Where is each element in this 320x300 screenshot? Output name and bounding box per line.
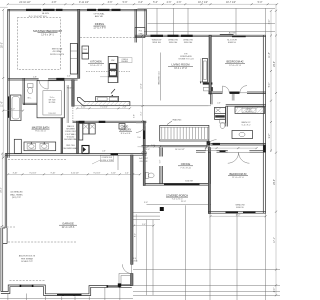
door bedroom3 1 bbox=[228, 152, 239, 163]
right exterior wall bbox=[263, 35, 265, 213]
door master bedroom to hall bbox=[39, 80, 48, 89]
garage east wall bbox=[131, 155, 133, 264]
svg-text:3'-10": 3'-10" bbox=[13, 172, 18, 174]
svg-text:MW ABV: MW ABV bbox=[121, 60, 129, 63]
svg-text:8'-6 x 6'-6: 8'-6 x 6'-6 bbox=[121, 133, 131, 135]
bath closet divider wall bbox=[61, 118, 63, 154]
master wic shelves bbox=[66, 85, 68, 123]
svg-text:F.G.: F.G. bbox=[139, 31, 143, 33]
svg-text:5'-6": 5'-6" bbox=[160, 159, 162, 163]
driveway apron line bbox=[0, 298, 133, 300]
wc toilet bbox=[28, 84, 34, 88]
svg-text:12'-0 x 11'-8: 12'-0 x 11'-8 bbox=[229, 65, 242, 67]
svg-text:11'-6 x 11'-0: 11'-6 x 11'-0 bbox=[232, 177, 244, 179]
svg-text:SEE NOTE: SEE NOTE bbox=[52, 49, 63, 51]
svg-text:PER SHEAR: PER SHEAR bbox=[21, 257, 34, 260]
kitchen stack side line bbox=[118, 56, 120, 83]
garage west wall bbox=[5, 154, 7, 229]
stair newel post bbox=[207, 141, 211, 145]
svg-text:3030 SH: 3030 SH bbox=[185, 181, 193, 183]
bath linen cabinet bbox=[14, 139, 21, 153]
svg-text:SL DOOR: SL DOOR bbox=[227, 40, 237, 42]
driveway horizontal 4 bbox=[133, 294, 280, 296]
door bedroom3 2 bbox=[239, 152, 250, 163]
svg-text:2'-8": 2'-8" bbox=[33, 76, 37, 78]
living south wall dim bbox=[153, 145, 155, 147]
kitchen dashed line bbox=[86, 70, 130, 72]
svg-text:12'-0": 12'-0" bbox=[236, 214, 241, 216]
garage stoop bbox=[119, 274, 131, 285]
fireplace chase corner bbox=[135, 28, 145, 38]
mud room north wall bbox=[73, 121, 147, 123]
svg-text:WINDOW: WINDOW bbox=[168, 40, 179, 42]
fireplace base box bbox=[204, 87, 213, 91]
svg-text:24'-6": 24'-6" bbox=[274, 179, 276, 185]
svg-text:5'-0": 5'-0" bbox=[146, 149, 150, 151]
svg-text:KITCHEN: KITCHEN bbox=[90, 60, 102, 64]
svg-text:OPTIONAL: OPTIONAL bbox=[93, 13, 105, 16]
kitchen note mark bbox=[111, 89, 115, 94]
living east wall bbox=[209, 35, 211, 94]
svg-text:W.C.: W.C. bbox=[28, 98, 32, 100]
svg-text:ANCHOR BOLTS: ANCHOR BOLTS bbox=[19, 255, 36, 258]
svg-text:2'-6": 2'-6" bbox=[217, 103, 221, 105]
porch post black bbox=[160, 207, 164, 211]
svg-text:3050 SH: 3050 SH bbox=[184, 42, 193, 44]
svg-text:NOTES: NOTES bbox=[49, 102, 56, 104]
covered patio roof lines bbox=[138, 7, 276, 9]
door kitchen-mud 1 bbox=[79, 121, 85, 123]
svg-text:BEDROOM #3: BEDROOM #3 bbox=[229, 172, 247, 176]
walkway dim line bbox=[134, 225, 154, 227]
svg-text:RAILING: RAILING bbox=[173, 118, 182, 121]
svg-text:5'-10 1/2: 5'-10 1/2 bbox=[48, 113, 55, 115]
svg-text:M.W.I.C.: M.W.I.C. bbox=[67, 88, 75, 90]
svg-text:ACCESS: ACCESS bbox=[246, 110, 254, 113]
apron joints bbox=[8, 287, 120, 300]
south wall bath/mud/garage north wall bbox=[5, 154, 146, 156]
svg-text:12'-11 x 9'-8: 12'-11 x 9'-8 bbox=[93, 28, 106, 30]
living west dim line bbox=[142, 35, 144, 121]
svg-text:GARAGE: GARAGE bbox=[62, 221, 74, 225]
porch grid joint bbox=[185, 205, 187, 300]
svg-text:5'-8": 5'-8" bbox=[133, 114, 135, 118]
driveway horizontal 1 bbox=[133, 269, 280, 271]
kitchen cabinet below ref bbox=[82, 54, 89, 60]
master bedroom tray ceiling dashed rect bbox=[17, 18, 60, 70]
right margin dimension lines bbox=[270, 11, 272, 152]
patio post 4 bbox=[235, 8, 237, 35]
svg-text:2'-4": 2'-4" bbox=[125, 172, 129, 174]
svg-text:LIVING ROOM: LIVING ROOM bbox=[172, 63, 191, 67]
svg-text:2'-8": 2'-8" bbox=[123, 106, 127, 108]
office window bbox=[164, 183, 200, 185]
fireplace bbox=[202, 59, 207, 83]
linen closet hatched bbox=[235, 107, 265, 114]
garage door post markers bbox=[62, 294, 64, 296]
garage front wall left bbox=[1, 285, 132, 296]
svg-text:SHOWER PAN: SHOWER PAN bbox=[64, 138, 77, 141]
attic access label bbox=[242, 108, 256, 112]
north wall of living room / bedroom2 under patio bbox=[135, 35, 266, 37]
window living 3 bbox=[181, 35, 193, 37]
fireplace hearth dark bar bbox=[203, 82, 213, 84]
svg-text:VAULTED CLG: VAULTED CLG bbox=[158, 71, 161, 85]
window master bedroom 1 bbox=[26, 9, 41, 11]
garage door dark bbox=[57, 294, 82, 296]
svg-text:OHA: OHA bbox=[138, 33, 143, 36]
svg-text:2'-4": 2'-4" bbox=[67, 76, 71, 78]
svg-text:(W1) TYP: (W1) TYP bbox=[12, 197, 22, 199]
bath2 vanity bbox=[232, 131, 253, 139]
wic tall cabinet dark bbox=[72, 80, 75, 107]
svg-text:BATH #2: BATH #2 bbox=[242, 121, 251, 124]
master bedroom east wall bbox=[78, 9, 80, 78]
living south wall bbox=[142, 145, 211, 147]
garage wall notch bbox=[3, 228, 7, 244]
svg-text:7'-9 x 9'-11: 7'-9 x 9'-11 bbox=[180, 167, 191, 169]
master bath tub bbox=[11, 95, 22, 121]
master bedroom south wall bbox=[8, 78, 39, 80]
washer dryer bbox=[83, 124, 89, 135]
left margin dimension line bbox=[2, 10, 4, 158]
mud utility box bbox=[82, 146, 89, 154]
door mud-garage dark bbox=[111, 153, 118, 155]
porch front edge bbox=[147, 204, 212, 206]
wc toilet 2 bbox=[146, 172, 149, 178]
svg-text:SHOWER HEAD: SHOWER HEAD bbox=[63, 147, 78, 150]
svg-text:7'-5 1/2": 7'-5 1/2" bbox=[100, 106, 108, 108]
office west wall hatched bbox=[160, 148, 163, 157]
utility closet boxes bbox=[215, 107, 226, 119]
svg-text:6030 SL: 6030 SL bbox=[236, 207, 245, 209]
garage west wall lower bbox=[1, 228, 3, 292]
kitchen refrigerator bbox=[82, 46, 89, 53]
door closet dark segment bbox=[56, 78, 64, 80]
garage window right bbox=[107, 285, 119, 287]
svg-text:DINING: DINING bbox=[95, 22, 104, 26]
door bedroom2 2 bbox=[240, 86, 247, 93]
svg-text:3'-0": 3'-0" bbox=[269, 20, 271, 25]
patio right edge bbox=[265, 8, 267, 35]
bath vanity bbox=[24, 142, 56, 151]
office east wall bbox=[208, 148, 210, 184]
garage dashed ceiling line 1 bbox=[8, 158, 66, 160]
bedroom2 wall stub dark bbox=[230, 92, 240, 94]
svg-text:11'-6": 11'-6" bbox=[1, 101, 3, 107]
stair railing bbox=[160, 125, 209, 141]
svg-text:29'-0": 29'-0" bbox=[1, 42, 3, 48]
svg-text:11'-8": 11'-8" bbox=[269, 52, 271, 58]
svg-text:2'-6": 2'-6" bbox=[167, 1, 172, 4]
svg-text:ABV HD: ABV HD bbox=[95, 15, 104, 18]
svg-text:4'-1": 4'-1" bbox=[141, 111, 143, 115]
bedroom3 north wall bbox=[196, 151, 206, 153]
svg-text:3050 SH: 3050 SH bbox=[152, 42, 161, 44]
mud east wall bbox=[143, 121, 145, 185]
door in mud east wall bbox=[143, 131, 145, 140]
svg-text:5'-0": 5'-0" bbox=[258, 1, 263, 4]
bath dim line bbox=[3, 110, 23, 112]
svg-text:ON PIER: ON PIER bbox=[140, 161, 148, 163]
svg-text:5'-0": 5'-0" bbox=[269, 83, 271, 88]
vanity sink 1 bbox=[27, 144, 36, 150]
vanity sink 2 bbox=[40, 144, 49, 150]
svg-text:5'-9": 5'-9" bbox=[123, 1, 128, 4]
bath2 door dark bar bbox=[213, 143, 221, 145]
svg-text:21'-0": 21'-0" bbox=[181, 201, 187, 203]
svg-text:ALIGN: ALIGN bbox=[229, 32, 236, 35]
svg-text:4x6 BRACED: 4x6 BRACED bbox=[10, 191, 23, 194]
garage window left bbox=[20, 285, 32, 287]
svg-text:22'-4 x 23'-6: 22'-4 x 23'-6 bbox=[62, 227, 75, 229]
svg-text:9'-10": 9'-10" bbox=[51, 172, 56, 174]
driveway vertical 2 bbox=[209, 214, 211, 300]
bath2 south wall bbox=[211, 144, 266, 146]
svg-text:BEDROOM #2: BEDROOM #2 bbox=[226, 60, 244, 64]
door hall closet bbox=[206, 140, 217, 151]
bath2 toilet bbox=[220, 119, 225, 123]
master bedroom wardrobe cabinet bbox=[70, 44, 77, 75]
door bedroom3 dark bar bbox=[220, 150, 226, 152]
svg-text:17'-0": 17'-0" bbox=[141, 83, 143, 89]
svg-text:10'-7 1/2": 10'-7 1/2" bbox=[198, 1, 208, 4]
top dimension line bbox=[8, 3, 277, 5]
patio post 3 bbox=[187, 8, 189, 35]
hall north wall bbox=[226, 104, 266, 106]
svg-text:9'-11 1/2": 9'-11 1/2" bbox=[79, 1, 89, 4]
garage dashed stub bbox=[0, 226, 15, 228]
svg-text:5'-0": 5'-0" bbox=[144, 202, 148, 204]
svg-text:8'-0": 8'-0" bbox=[134, 233, 136, 237]
svg-text:R.O. 11'-0 5/8" V.I.F.: R.O. 11'-0 5/8" V.I.F. bbox=[29, 16, 48, 18]
svg-text:STONE TO CLG: STONE TO CLG bbox=[178, 59, 194, 61]
kitchen oven note box bbox=[118, 58, 133, 63]
svg-text:5'-10": 5'-10" bbox=[111, 172, 116, 174]
svg-text:13'-6 x 14'-1: 13'-6 x 14'-1 bbox=[41, 35, 54, 37]
sliding door bedroom2 bbox=[220, 34, 234, 35]
svg-text:MASTER BEDROOM: MASTER BEDROOM bbox=[33, 29, 62, 33]
window master bedroom 3 bbox=[56, 9, 63, 11]
svg-text:OFFICE: OFFICE bbox=[181, 162, 191, 166]
svg-text:5'-0": 5'-0" bbox=[142, 224, 146, 226]
bedroom2 south wall bbox=[208, 92, 222, 94]
driveway horizontal 2 bbox=[133, 284, 280, 286]
svg-text:5'-0 x 9'-2: 5'-0 x 9'-2 bbox=[242, 125, 252, 127]
left exterior wall bbox=[8, 9, 10, 157]
svg-text:ALIGN: ALIGN bbox=[42, 12, 49, 15]
svg-text:WINDOW: WINDOW bbox=[152, 40, 163, 42]
hall dim line 2 bbox=[206, 147, 257, 149]
wc bottom wall bbox=[23, 103, 37, 105]
svg-text:WALL B: WALL B bbox=[67, 125, 75, 128]
kitchen oven stack bbox=[108, 56, 117, 76]
svg-text:24'-10 1/2": 24'-10 1/2" bbox=[19, 1, 31, 4]
fireplace dim line bbox=[200, 59, 202, 84]
pantry cabinet mud bbox=[79, 124, 83, 141]
garage side dim bbox=[135, 214, 137, 262]
svg-text:FIREPLACE: FIREPLACE bbox=[180, 55, 192, 58]
hall dim line bbox=[138, 146, 160, 148]
mud sink box bbox=[119, 124, 125, 130]
svg-text:16'-4 x 17'-8: 16'-4 x 17'-8 bbox=[174, 68, 187, 70]
garage left margin dim line bbox=[1, 154, 3, 229]
window left wall master bath bbox=[8, 96, 10, 117]
svg-text:9'-0 1/2": 9'-0 1/2" bbox=[30, 172, 37, 174]
dining east wall bbox=[135, 9, 137, 42]
porch steps bbox=[132, 212, 160, 214]
svg-text:WALL PANEL: WALL PANEL bbox=[10, 193, 24, 196]
svg-text:4X FRME: 4X FRME bbox=[52, 51, 62, 53]
kitchen leader bbox=[100, 76, 108, 78]
window master bedroom 2 bbox=[43, 9, 55, 11]
svg-text:3050 SH: 3050 SH bbox=[169, 42, 178, 44]
svg-text:24'-6": 24'-6" bbox=[274, 61, 276, 67]
window dining 1 bbox=[87, 9, 96, 11]
svg-text:6068 SL: 6068 SL bbox=[228, 42, 237, 44]
svg-text:5'-0": 5'-0" bbox=[153, 1, 158, 4]
svg-text:4'-0": 4'-0" bbox=[138, 1, 143, 4]
kitchen counter bbox=[78, 97, 130, 105]
svg-text:14'-10 1/2": 14'-10 1/2" bbox=[175, 149, 185, 151]
window dining 2 bbox=[98, 9, 110, 11]
garage dim line bbox=[8, 173, 140, 175]
bedroom3 south dim bbox=[211, 215, 266, 217]
bedroom2 closet hatch bbox=[232, 94, 235, 101]
living/hall boundary line bbox=[73, 105, 209, 107]
water closet wall vertical bbox=[23, 78, 25, 104]
hall post symbol bbox=[142, 151, 147, 156]
window living 2 bbox=[168, 35, 179, 37]
mud room door arc right bbox=[136, 123, 146, 132]
kitchen sink counter bbox=[96, 96, 119, 101]
hall wall segments bbox=[211, 94, 213, 104]
svg-text:2'-6": 2'-6" bbox=[102, 151, 106, 153]
top exterior wall bbox=[8, 9, 147, 11]
svg-text:3'-6": 3'-6" bbox=[108, 1, 113, 4]
garage interior line bbox=[117, 155, 119, 170]
garage dashed line 2 bbox=[8, 241, 76, 243]
svg-text:10'-7 1/2": 10'-7 1/2" bbox=[226, 1, 236, 4]
garage service door arc bbox=[122, 264, 131, 273]
window dining 3 bbox=[112, 9, 121, 11]
svg-text:2'-6": 2'-6" bbox=[177, 1, 182, 4]
window bedroom3 1 bbox=[226, 211, 239, 213]
svg-text:9'-0 1/2": 9'-0 1/2" bbox=[94, 172, 101, 174]
bedroom3 south wall bbox=[208, 212, 265, 214]
wic east wall bbox=[77, 121, 79, 153]
window living 1 bbox=[151, 35, 164, 37]
projection line top left bbox=[0, 6, 8, 8]
svg-text:4'-11": 4'-11" bbox=[81, 106, 86, 108]
dining kitchen dashed boundary bbox=[80, 37, 136, 39]
svg-text:9'-6 x 11'-5: 9'-6 x 11'-5 bbox=[35, 131, 46, 133]
svg-text:5'-0": 5'-0" bbox=[151, 145, 155, 147]
svg-text:GUIDE & TRIM: GUIDE & TRIM bbox=[101, 160, 114, 162]
svg-text:23'-2": 23'-2" bbox=[1, 187, 3, 193]
window bedroom3 2 bbox=[243, 211, 256, 213]
office south wall bbox=[145, 184, 210, 186]
svg-text:17'-1": 17'-1" bbox=[274, 237, 276, 243]
svg-text:4' B.P WALL: 4' B.P WALL bbox=[65, 133, 76, 136]
kitchen faucet bbox=[112, 95, 113, 96]
svg-text:SCHED TYP: SCHED TYP bbox=[21, 261, 33, 263]
driveway horizontal 3 bbox=[133, 291, 280, 293]
vaulted ceiling line bbox=[160, 53, 162, 101]
window right wall hall bbox=[263, 145, 265, 152]
wall west of living room bbox=[145, 9, 147, 35]
svg-text:4'-8": 4'-8" bbox=[52, 1, 57, 4]
patio post 2 bbox=[173, 8, 175, 35]
kitchen dimension line bbox=[77, 107, 130, 109]
svg-text:5'-0": 5'-0" bbox=[11, 109, 15, 111]
garage dashed line 3 bbox=[10, 279, 46, 281]
counter front edge line bbox=[83, 105, 211, 107]
svg-text:WINDOW: WINDOW bbox=[183, 40, 194, 42]
walkway lines bbox=[146, 220, 148, 296]
svg-text:3'-10 1/2": 3'-10 1/2" bbox=[71, 172, 79, 174]
compu flr note bbox=[100, 155, 113, 161]
bedroom3 west wall bbox=[208, 152, 210, 213]
master shower enclosure bbox=[37, 81, 64, 118]
svg-text:10'-6 x 11'-2: 10'-6 x 11'-2 bbox=[90, 65, 103, 67]
svg-text:ROPE LIGHTS: ROPE LIGHTS bbox=[50, 54, 65, 56]
svg-text:MW: MW bbox=[111, 60, 114, 62]
stoop post black bbox=[118, 283, 121, 286]
patio post 1 bbox=[156, 8, 158, 35]
door bedroom2 1 bbox=[223, 86, 230, 93]
door kitchen-mud 2 bbox=[99, 121, 106, 123]
driveway vertical 4 bbox=[265, 214, 267, 300]
driveway vertical 3 bbox=[236, 214, 238, 300]
svg-text:DOOR: DOOR bbox=[132, 260, 138, 262]
svg-text:9'-2": 9'-2" bbox=[269, 134, 271, 139]
